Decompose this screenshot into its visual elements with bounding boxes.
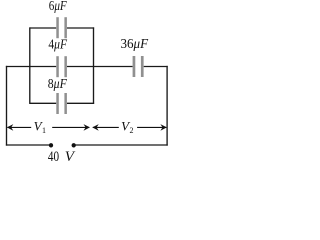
terminal node right dot xyxy=(72,143,76,147)
svg-text:6μF: 6μF xyxy=(49,0,68,13)
wire top branch left segment xyxy=(30,27,56,29)
wire top branch right segment xyxy=(67,27,94,29)
wire inner left rail xyxy=(29,27,31,104)
capacitor C2 4uF plates xyxy=(56,56,67,77)
wire outer left vertical xyxy=(6,66,8,146)
capacitor C3 8uF plates xyxy=(56,93,67,114)
wire bottom left segment xyxy=(6,144,51,146)
wire inner right rail xyxy=(93,27,95,104)
capacitor C1 6uF plates xyxy=(56,17,67,38)
wire bottom branch left segment xyxy=(30,102,56,104)
wire bottom right segment xyxy=(74,144,168,146)
svg-text:V1: V1 xyxy=(34,119,46,135)
svg-text:40: 40 xyxy=(48,149,59,165)
svg-text:V: V xyxy=(65,149,76,165)
svg-text:36μF: 36μF xyxy=(121,36,149,51)
wire middle branch left segment xyxy=(6,66,56,68)
dimension arrow V1 xyxy=(7,124,90,131)
svg-text:8μF: 8μF xyxy=(48,76,68,91)
capacitor C4 36uF plates xyxy=(133,56,144,77)
wire middle branch right segment xyxy=(144,66,168,68)
svg-text:V2: V2 xyxy=(121,119,133,135)
wire bottom branch right segment xyxy=(67,102,94,104)
wire middle branch center segment xyxy=(67,66,133,68)
terminal node left dot xyxy=(49,143,53,147)
dimension arrow V2 xyxy=(92,124,167,131)
wire outer right vertical xyxy=(166,66,168,146)
svg-text:4μF: 4μF xyxy=(48,37,67,52)
